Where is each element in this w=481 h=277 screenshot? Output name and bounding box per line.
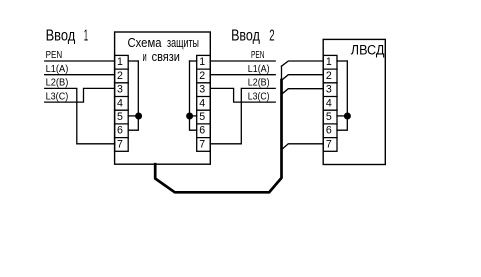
wire cable breakout to X3 pin 3: [282, 89, 324, 95]
wire X1 pin 5 stub: [128, 115, 138, 117]
svg-text:2: 2: [269, 27, 274, 44]
svg-text:PEN: PEN: [251, 50, 265, 61]
wire L1(A) to X1 pin 2: [45, 74, 115, 76]
connector X2 right pin strip of U1: [197, 55, 211, 151]
wire X2 pin 1 to internal bus: [190, 60, 197, 62]
wire X2 pin 5 stub: [190, 115, 197, 117]
svg-text:L1(A): L1(A): [248, 64, 270, 75]
svg-text:6: 6: [117, 125, 123, 137]
svg-text:1: 1: [326, 56, 332, 68]
svg-text:1: 1: [84, 27, 88, 44]
svg-text:2: 2: [117, 70, 123, 82]
wire cable breakout to X3 pin 1: [282, 61, 324, 66]
svg-text:4: 4: [199, 97, 205, 109]
svg-text:Ввод: Ввод: [46, 27, 76, 44]
svg-text:защиты: защиты: [167, 35, 199, 50]
svg-text:L2(B): L2(B): [46, 78, 69, 89]
svg-text:L1(A): L1(A): [46, 64, 69, 75]
wire internal bus right (pin1-pin5-pin6): [190, 61, 197, 130]
svg-text:ЛВСД: ЛВСД: [351, 42, 385, 57]
wire L3(C) to X1 pin 3: [45, 88, 115, 102]
wire X1 pin 1 to internal bus: [128, 60, 138, 62]
svg-text:3: 3: [199, 84, 205, 96]
svg-text:3: 3: [326, 84, 332, 96]
svg-text:2: 2: [326, 70, 332, 82]
wire L2(B) to X1 pin 7: [45, 88, 115, 143]
svg-text:L3(C): L3(C): [248, 91, 270, 102]
node junction dot left: [135, 113, 142, 120]
box U1 Схема защиты и связи: [115, 32, 211, 164]
svg-text:L3(C): L3(C): [46, 91, 69, 102]
wire cable breakout to X3 pin 7: [282, 144, 324, 150]
svg-text:5: 5: [117, 111, 123, 123]
node junction dot right: [186, 113, 193, 120]
svg-text:5: 5: [326, 111, 332, 123]
wire X3 pin 5 stub: [337, 115, 347, 117]
X3 pin numbers 1-7: [326, 56, 332, 150]
wire PEN to X1 pin 1: [45, 60, 115, 62]
svg-text:Схема: Схема: [128, 35, 163, 50]
svg-text:PEN: PEN: [46, 50, 63, 61]
svg-text:7: 7: [326, 138, 332, 150]
svg-text:3: 3: [117, 84, 123, 96]
svg-text:5: 5: [199, 111, 205, 123]
cable W1 thick run: [155, 80, 281, 192]
svg-text:2: 2: [199, 70, 205, 82]
wire cable W1 thin riser: [281, 66, 283, 80]
wire X2 pin 7 L2(B): [210, 88, 275, 143]
wire internal bus ЛВСД (pin1-pin5-pin6): [337, 61, 347, 130]
svg-text:Ввод: Ввод: [231, 27, 260, 44]
svg-text:6: 6: [326, 125, 332, 137]
label и связи: [143, 50, 180, 64]
wire X3 pin 1 to internal bus: [337, 60, 347, 62]
wire cable breakout to X3 pin 2: [282, 75, 324, 81]
wire X2 pin 1 PEN: [210, 60, 275, 62]
label Ввод 1: [46, 27, 89, 44]
svg-text:4: 4: [326, 97, 332, 109]
connector X3 pin strip of U2: [323, 55, 337, 151]
wire X2 pin 3 L3(C): [210, 88, 275, 102]
node junction dot ЛВСД: [344, 113, 351, 120]
svg-text:1: 1: [199, 56, 205, 68]
svg-text:L2(B): L2(B): [248, 78, 270, 89]
label Ввод 2: [231, 27, 275, 44]
X1 pin numbers 1-7: [117, 56, 123, 150]
wire X2 pin 2 L1(A): [210, 74, 275, 76]
label Схема защиты: [128, 35, 200, 50]
X2 pin numbers 1-7: [199, 56, 205, 150]
box U2 ЛВСД: [323, 39, 385, 164]
wire internal bus left (pin1-pin5-pin6): [128, 61, 138, 130]
svg-text:7: 7: [199, 138, 205, 150]
svg-text:6: 6: [199, 125, 205, 137]
svg-text:4: 4: [117, 97, 123, 109]
connector X1 left pin strip of U1: [115, 55, 129, 151]
svg-text:7: 7: [117, 138, 123, 150]
svg-text:связи: связи: [152, 50, 180, 64]
svg-text:и: и: [143, 50, 147, 64]
svg-text:1: 1: [117, 56, 123, 68]
